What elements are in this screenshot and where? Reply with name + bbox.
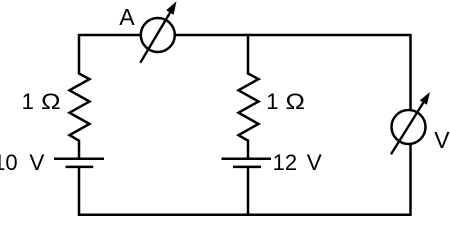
battery 12 V long positive plate [222,157,272,160]
wire bottom rail [79,214,411,217]
wire resistor to battery left branch [78,140,81,158]
svg-text:1: 1 [22,89,34,114]
resistor 1 ohm left branch [70,74,90,141]
wire battery to bottom rail middle branch [247,167,250,216]
battery 12 V short negative plate [233,166,261,169]
svg-text:10: 10 [0,150,18,175]
wire top rail left segment with top-left corner [79,35,140,75]
voltmeter V circle [392,110,426,144]
wire battery to bottom-left corner [79,167,85,215]
svg-text:V: V [29,150,44,175]
battery 10 V short negative plate [66,166,94,169]
wire top rail right segment with top-right corner down to voltmeter [176,35,411,110]
ammeter A needle arrow [140,1,176,63]
wire bottom-right corner up to voltmeter [405,145,411,215]
battery 10 V long positive plate [54,157,104,160]
svg-text:12: 12 [273,150,297,175]
resistor 1 ohm middle branch [239,74,259,141]
wire resistor to battery middle branch [247,140,250,158]
wire middle branch top (junction at top rail) [247,34,250,75]
svg-text:A: A [119,4,135,30]
svg-text:Ω: Ω [286,90,305,115]
svg-text:V: V [307,150,322,175]
svg-text:V: V [434,127,450,153]
ammeter A circle [141,18,175,52]
voltmeter V needle arrow [391,92,430,154]
svg-text:Ω: Ω [41,90,61,115]
svg-text:1: 1 [266,89,278,114]
